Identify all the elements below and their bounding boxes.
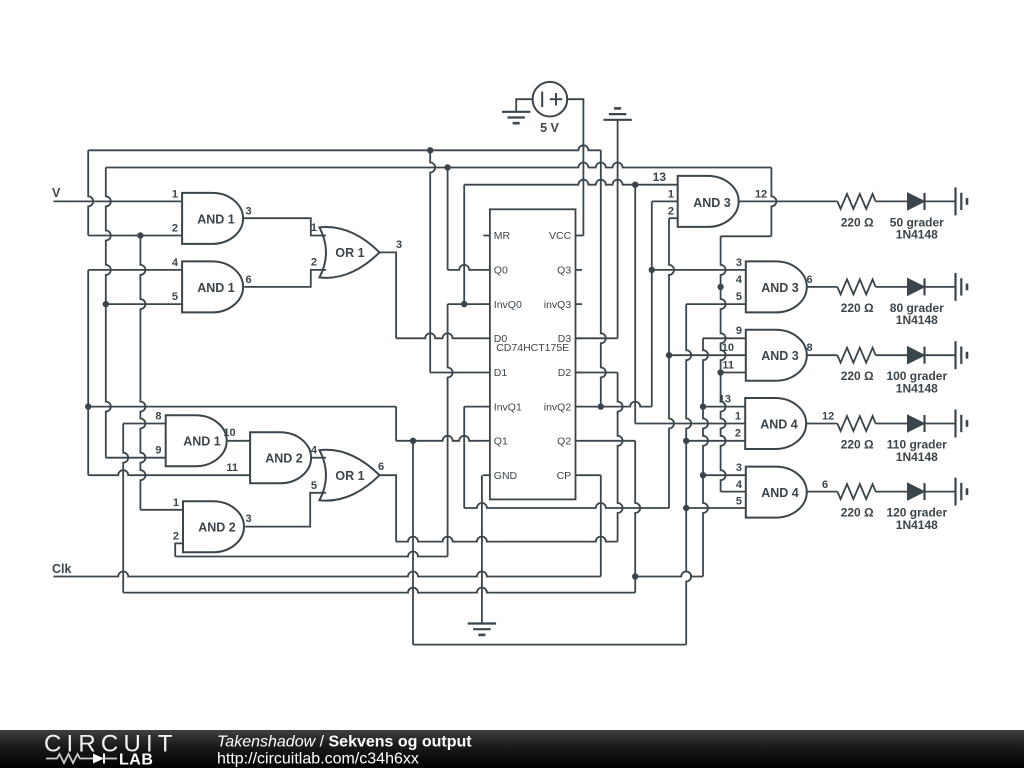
svg-text:5: 5	[736, 291, 742, 303]
node x721-pin11 AND3c	[717, 369, 723, 375]
wire AND4b pin5 row	[686, 507, 746, 509]
diode D3 1N4148	[908, 347, 925, 364]
svg-text:OR 1: OR 1	[335, 469, 364, 483]
node x686-pin2row	[683, 438, 689, 444]
svg-text:2: 2	[311, 257, 317, 269]
node x106-pin5	[103, 301, 109, 307]
wire AND2a pin11 row	[88, 470, 250, 475]
wire R5 to D5	[876, 491, 908, 493]
node x703-pin13	[700, 403, 706, 409]
wire Q1 row	[413, 436, 483, 441]
OR gate OR2	[320, 450, 380, 501]
svg-text:invQ2: invQ2	[544, 401, 572, 413]
svg-text:CP: CP	[557, 470, 572, 482]
svg-text:Takenshadow / Sekvens og outpu: Takenshadow / Sekvens og output	[217, 733, 472, 750]
ground G5	[954, 273, 956, 301]
wire row270 to AND3b pin3	[652, 269, 746, 271]
svg-text:1N4148: 1N4148	[896, 313, 938, 327]
wire x430 D1 feed	[430, 150, 435, 372]
AND gate AND1c	[166, 415, 227, 466]
svg-text:Q0: Q0	[494, 265, 508, 277]
svg-text:11: 11	[226, 462, 238, 474]
AND gate AND2a	[250, 432, 311, 483]
wire AND3c pin9 row	[703, 337, 746, 339]
svg-text:AND 1: AND 1	[197, 212, 235, 226]
wire R3 to D3	[876, 354, 908, 356]
resistor R3 220	[837, 348, 875, 363]
wire bottom row644	[413, 644, 686, 646]
node Clk-x635	[632, 573, 638, 579]
wire AND1b pin5 row	[106, 303, 182, 305]
svg-text:http://circuitlab.com/c34h6xx: http://circuitlab.com/c34h6xx	[217, 750, 419, 767]
svg-text:2: 2	[173, 530, 179, 542]
wire x106 bus	[106, 168, 111, 458]
svg-text:4: 4	[172, 257, 179, 269]
wire row406 jog down	[395, 407, 397, 441]
svg-text:5: 5	[311, 480, 317, 492]
wire AND2b pin2 return	[175, 543, 183, 556]
wire D1 to ground	[925, 200, 956, 202]
svg-text:13: 13	[719, 394, 731, 406]
resistor R5 220	[837, 484, 875, 499]
node x703-pin3	[700, 472, 706, 478]
wire AND3c out	[806, 354, 837, 356]
svg-text:Q1: Q1	[494, 436, 508, 448]
wire D3 to ground	[925, 354, 956, 356]
svg-text:8: 8	[807, 342, 813, 354]
svg-text:AND 3: AND 3	[693, 196, 731, 210]
wire x448 InvQ0 drop	[448, 304, 453, 556]
wire AND1a pin2 row	[88, 235, 182, 237]
svg-text:VCC: VCC	[549, 230, 572, 242]
node x669-pin10	[666, 352, 672, 358]
svg-text:OR 1: OR 1	[335, 246, 364, 260]
svg-text:220 Ω: 220 Ω	[841, 506, 874, 520]
svg-text:11: 11	[722, 360, 734, 372]
IC pin stubs	[483, 235, 490, 237]
resistor R1 220	[837, 194, 875, 209]
svg-text:1N4148: 1N4148	[896, 228, 938, 242]
wire D5 to ground	[925, 491, 956, 493]
voltage source V1 5V	[533, 82, 568, 117]
svg-text:6: 6	[246, 274, 252, 286]
wire Q2 row	[581, 440, 635, 442]
svg-text:12: 12	[822, 411, 834, 423]
wire row236 to x721	[721, 235, 772, 237]
diode D2 1N4148	[908, 278, 925, 295]
svg-text:6: 6	[822, 479, 828, 491]
ground G6	[954, 341, 956, 369]
wire x703 bus	[703, 338, 708, 576]
wire row592	[123, 588, 635, 593]
wire InvQ0 row	[448, 303, 484, 305]
wire row508 InvQ1 to AND3a.2	[464, 503, 669, 508]
svg-text:9: 9	[155, 445, 161, 457]
wire x88 seg1	[88, 150, 93, 235]
diode D1 1N4148	[908, 193, 925, 210]
node invQ2-x601	[598, 403, 604, 409]
svg-text:V: V	[52, 186, 61, 200]
svg-text:AND 1: AND 1	[197, 281, 235, 295]
resistor R2 220	[837, 279, 875, 294]
diode D5 1N4148	[908, 483, 925, 500]
svg-text:1: 1	[735, 411, 741, 423]
ground G2 flipped	[603, 119, 631, 121]
wire InvQ1 row	[464, 406, 483, 408]
wire source left lead	[516, 99, 532, 112]
svg-text:AND 1: AND 1	[183, 435, 221, 449]
wire D2 to ground	[925, 286, 956, 288]
wire CP to Clk	[581, 474, 601, 476]
wire row406 Q1 net	[88, 406, 396, 408]
svg-text:4: 4	[311, 444, 318, 456]
wire D3 to flipped ground	[576, 337, 618, 339]
wire Clk row right seg	[635, 572, 703, 577]
svg-text:AND 2: AND 2	[265, 452, 303, 466]
wire AND3a out	[738, 200, 838, 202]
wire invQ2 row	[581, 402, 652, 407]
wire V input	[54, 200, 183, 202]
svg-text:10: 10	[223, 427, 235, 439]
wire AND2b pin1 row	[140, 509, 183, 511]
node x721-pin4 AND3b	[717, 284, 723, 290]
wire AND1c out	[228, 440, 250, 442]
wire AND1a out to OR1 pin1	[244, 218, 326, 235]
node rowA-x430	[427, 147, 433, 153]
svg-text:2: 2	[172, 223, 178, 235]
wire AND4b pin4 row	[721, 491, 746, 493]
wire row13 net InvQ0	[463, 185, 465, 304]
svg-text:2: 2	[668, 205, 674, 217]
svg-text:LAB: LAB	[119, 751, 153, 768]
wire source right lead to VCC	[567, 99, 583, 235]
svg-text:220 Ω: 220 Ω	[841, 438, 874, 452]
wire AND3c pin10 row	[669, 354, 746, 356]
ground G3 bottom	[468, 622, 496, 624]
wire Q2 drop x635	[635, 441, 640, 593]
wire AND3b out	[806, 286, 837, 288]
svg-text:2: 2	[735, 427, 741, 439]
svg-text:220 Ω: 220 Ω	[841, 215, 874, 229]
ground G7	[954, 410, 956, 438]
wire row441 jog to dot	[396, 440, 413, 442]
node row13-x635	[632, 182, 638, 188]
svg-text:D2: D2	[558, 367, 572, 379]
svg-text:1N4148: 1N4148	[896, 450, 938, 464]
svg-text:6: 6	[378, 461, 384, 473]
svg-text:1N4148: 1N4148	[896, 382, 938, 396]
wire rowA drop to invQ2	[601, 150, 606, 406]
svg-text:MR: MR	[494, 230, 511, 242]
svg-text:3: 3	[246, 205, 252, 217]
svg-text:220 Ω: 220 Ω	[841, 369, 874, 383]
wire AND3b pin5 row	[686, 303, 746, 305]
svg-text:invQ3: invQ3	[544, 299, 572, 311]
AND gate AND4a	[745, 398, 806, 449]
wire rowA net invQ2-D1-AND1a.2	[88, 145, 601, 150]
svg-text:GND: GND	[494, 470, 518, 482]
wire R2 to D2	[876, 286, 908, 288]
svg-text:AND 2: AND 2	[198, 521, 236, 535]
AND gate AND2b	[183, 501, 244, 552]
wire AND2a out to OR2 pin4	[312, 457, 326, 459]
svg-text:1: 1	[668, 188, 674, 200]
AND gate AND1a	[182, 193, 243, 244]
node rowB-x448	[444, 164, 450, 170]
svg-text:5: 5	[736, 496, 742, 508]
resistor R4 220	[837, 416, 875, 431]
svg-text:3: 3	[396, 239, 402, 251]
wire x88 seg2	[87, 270, 89, 475]
svg-text:13: 13	[653, 170, 667, 184]
svg-text:8: 8	[155, 410, 161, 422]
svg-text:9: 9	[736, 325, 742, 337]
svg-text:1N4148: 1N4148	[896, 518, 938, 532]
wire x635 to AND4a pin1	[634, 185, 636, 424]
wire x721 bus drop	[721, 236, 726, 491]
AND gate AND3c	[746, 330, 807, 381]
ground G1 at source	[502, 111, 530, 113]
wire x686 bus	[686, 304, 691, 644]
svg-text:Clk: Clk	[52, 562, 72, 576]
wire x413 drop	[412, 441, 414, 645]
svg-text:1: 1	[173, 497, 179, 509]
svg-text:InvQ1: InvQ1	[494, 401, 522, 413]
wire AND1b out to OR1 pin2	[244, 270, 326, 287]
wire AND4a out	[805, 423, 837, 425]
wire AND1b pin4 row	[88, 269, 182, 271]
wire AND4b pin3 row	[703, 474, 746, 476]
wire AND1c pin8 net	[123, 424, 128, 593]
wire R1 to D1	[876, 200, 908, 202]
logo resistor-diode squiggle	[46, 754, 93, 763]
svg-text:3: 3	[736, 462, 742, 474]
wire D4 to ground	[925, 423, 956, 425]
svg-text:InvQ0: InvQ0	[494, 299, 522, 311]
svg-text:10: 10	[722, 342, 734, 354]
OR gate OR1a	[320, 227, 380, 278]
svg-text:5: 5	[172, 291, 178, 303]
wire AND4b out	[806, 491, 837, 493]
AND gate AND3a	[678, 176, 739, 227]
wire D2 route to OR2 out	[576, 372, 618, 374]
wire AND4a pin13 row	[703, 406, 745, 408]
svg-text:4: 4	[736, 274, 743, 286]
svg-text:D0: D0	[494, 333, 508, 345]
svg-text:6: 6	[807, 274, 813, 286]
svg-text:D3: D3	[558, 333, 572, 345]
svg-text:3: 3	[246, 513, 252, 525]
AND gate AND1b	[182, 261, 243, 312]
AND gate AND4b	[746, 467, 807, 518]
wire AND4a pin2 row	[686, 440, 745, 442]
node x686-pin5row	[683, 505, 689, 511]
wire x652 invQ2 up to AND3a.1	[651, 201, 653, 406]
wire AND2b out to OR2 pin5	[245, 493, 326, 527]
wire AND1c pin9 row	[106, 457, 166, 459]
svg-text:1: 1	[311, 222, 317, 234]
wire GND pin route to ground	[482, 474, 485, 476]
IC U1 CD74HCT175E box	[490, 209, 576, 499]
wire x464 InvQ1 drop	[463, 407, 465, 508]
node x652-row270	[649, 267, 655, 273]
wire x669 bus	[669, 218, 674, 508]
wire x140 bus	[140, 236, 145, 510]
svg-text:CIRCUIT: CIRCUIT	[44, 730, 178, 757]
node pin2-x140	[137, 232, 143, 238]
wire x448 rowB to Q0	[447, 168, 449, 270]
svg-text:AND 3: AND 3	[761, 349, 799, 363]
svg-text:4: 4	[736, 479, 743, 491]
diode D4 1N4148	[908, 415, 925, 432]
svg-text:5 V: 5 V	[540, 121, 559, 135]
node Q1-x413	[410, 438, 416, 444]
svg-text:220 Ω: 220 Ω	[841, 301, 874, 315]
wire rowB drop right	[771, 168, 776, 237]
ground G8	[954, 478, 956, 506]
svg-text:12: 12	[755, 188, 767, 200]
node InvQ0-x464	[461, 301, 467, 307]
svg-text:3: 3	[736, 257, 742, 269]
wire x669 up to AND3a.2	[669, 217, 678, 219]
ground G4	[954, 187, 956, 215]
svg-text:AND 4: AND 4	[760, 417, 798, 431]
svg-text:1: 1	[172, 188, 178, 200]
svg-text:AND 3: AND 3	[761, 281, 799, 295]
wire OR1a out to D0	[380, 252, 397, 338]
svg-text:Q3: Q3	[557, 265, 571, 277]
svg-text:D1: D1	[494, 367, 508, 379]
wire AND3c pin11 row	[721, 372, 746, 374]
node x88-row406	[85, 403, 91, 409]
svg-text:Q2: Q2	[557, 436, 571, 448]
svg-text:AND 4: AND 4	[761, 486, 799, 500]
wire R4 to D4	[876, 423, 908, 425]
wire Clk row	[54, 572, 601, 577]
wire rowB net Q0	[106, 163, 772, 168]
AND gate AND3b	[746, 261, 807, 312]
